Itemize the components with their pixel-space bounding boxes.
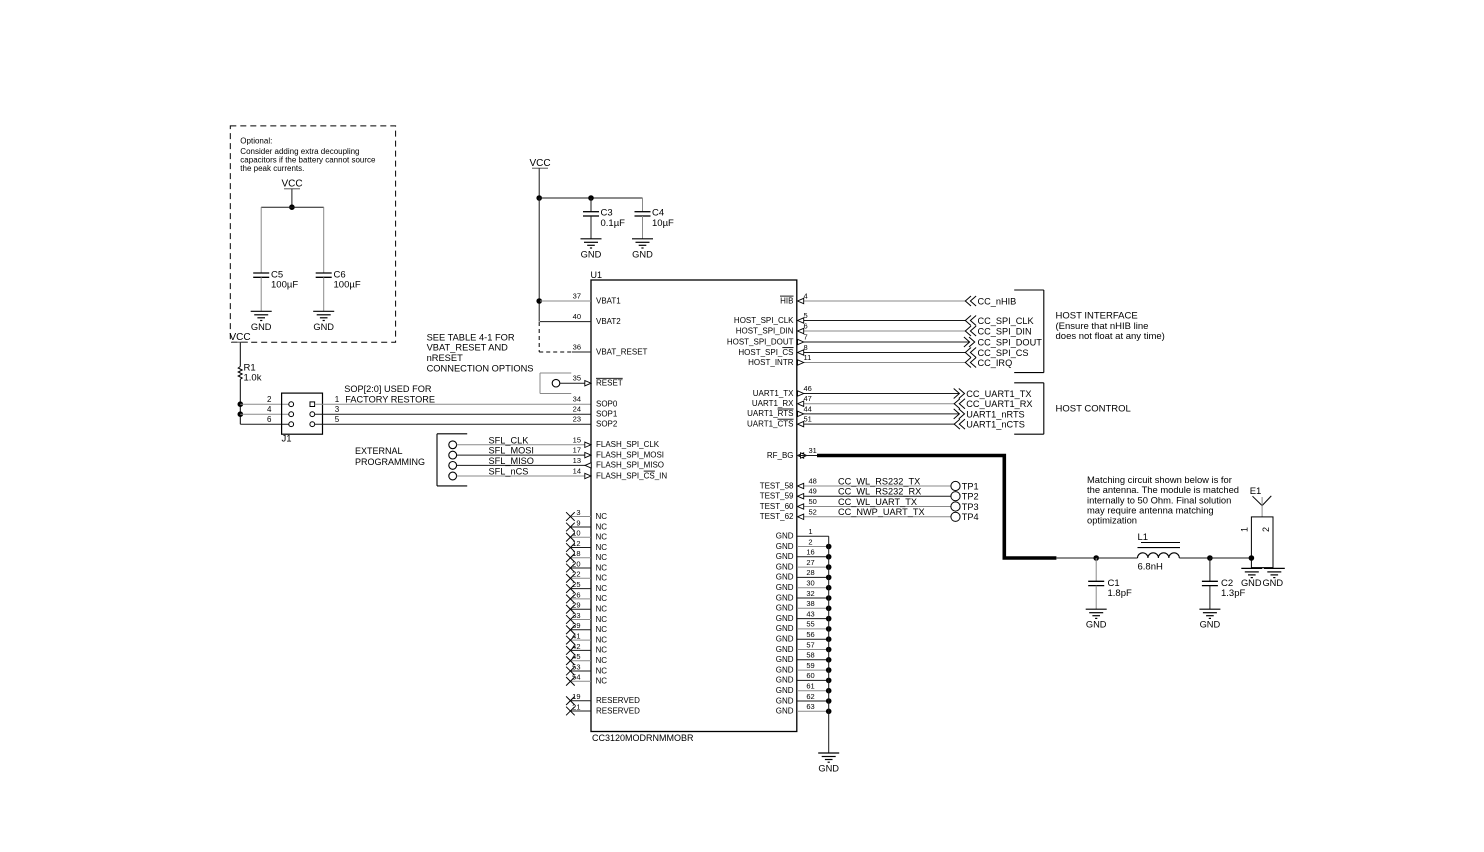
- IC U1 body: [591, 280, 797, 732]
- U1 pin 40 VBAT2: [540, 312, 621, 326]
- wire C1 to L1: [1096, 557, 1137, 559]
- svg-text:VCC: VCC: [529, 158, 550, 169]
- svg-text:GND: GND: [776, 583, 794, 592]
- capacitor C5: [253, 273, 269, 277]
- svg-text:SOP1: SOP1: [596, 410, 618, 419]
- SFL_nCS terminal circle: [449, 472, 457, 480]
- U1 pin 41 NC: [566, 632, 607, 645]
- offpage connector CC_nHIB: [965, 296, 1016, 307]
- svg-text:45: 45: [572, 652, 580, 661]
- svg-text:1.3pF: 1.3pF: [1221, 588, 1245, 599]
- offpage connector CC_UART1_TX: [954, 389, 1032, 400]
- svg-text:53: 53: [572, 662, 580, 671]
- power VCC (optional block): [281, 179, 302, 190]
- ground GND (C5): [251, 311, 272, 332]
- U1 pin 24 SOP1: [573, 405, 618, 419]
- svg-text:23: 23: [573, 415, 581, 424]
- capacitor C3: [583, 212, 599, 216]
- svg-text:CC_SPI_DIN: CC_SPI_DIN: [978, 327, 1032, 337]
- svg-text:GND: GND: [776, 532, 794, 541]
- offpage connector CC_SPI_CS: [965, 348, 1028, 359]
- J1 pad pin5: [310, 422, 315, 427]
- label L1: [1138, 532, 1163, 572]
- svg-text:GND: GND: [776, 676, 794, 685]
- svg-text:CC_UART1_TX: CC_UART1_TX: [966, 389, 1031, 399]
- svg-text:26: 26: [572, 590, 580, 599]
- bracket HOST INTERFACE: [1014, 290, 1044, 373]
- U1 pin 54 NC: [566, 673, 607, 686]
- svg-text:16: 16: [806, 548, 814, 557]
- U1 pin 21 RESERVED: [566, 702, 640, 715]
- svg-text:UART1_TX: UART1_TX: [753, 389, 794, 398]
- svg-text:100µF: 100µF: [271, 280, 298, 291]
- U1 pin 39 NC: [566, 621, 607, 634]
- power VCC (R1 branch): [229, 332, 250, 343]
- svg-text:24: 24: [573, 405, 581, 414]
- wire C5 to GND: [260, 277, 262, 311]
- svg-text:TEST_58: TEST_58: [760, 481, 794, 490]
- svg-text:GND: GND: [776, 655, 794, 664]
- svg-text:UART1_RX: UART1_RX: [752, 399, 794, 408]
- U1 pin 8 HOST_SPI_CS + wire: [738, 343, 965, 357]
- U1 pin 12 NC: [566, 539, 607, 552]
- svg-text:UART1_RTS: UART1_RTS: [747, 409, 793, 418]
- wire C1 drop: [1095, 558, 1097, 581]
- svg-text:19: 19: [572, 692, 580, 701]
- svg-text:GND: GND: [776, 707, 794, 716]
- svg-text:VCC: VCC: [281, 179, 302, 190]
- svg-text:21: 21: [572, 702, 580, 711]
- offpage connector CC_SPI_DIN: [965, 326, 1031, 337]
- svg-text:HOST_SPI_DOUT: HOST_SPI_DOUT: [727, 337, 794, 346]
- svg-text:3: 3: [576, 508, 580, 517]
- E1 pin number 1: [1240, 527, 1250, 532]
- text optional note: [240, 137, 376, 174]
- svg-text:SFL_MISO: SFL_MISO: [489, 456, 534, 466]
- J1 pad pin3: [310, 412, 315, 417]
- U1 pin 2 GND: [776, 537, 832, 551]
- node junction C2 top: [1207, 555, 1213, 561]
- svg-text:1: 1: [1240, 527, 1250, 532]
- U1 pin 7 HOST_SPI_DOUT + wire: [727, 333, 970, 347]
- svg-text:VBAT_RESET AND: VBAT_RESET AND: [427, 343, 509, 353]
- svg-text:32: 32: [806, 589, 814, 598]
- offpage connector CC_IRQ: [965, 358, 1012, 369]
- svg-text:TP1: TP1: [962, 481, 979, 491]
- svg-text:10µF: 10µF: [652, 218, 674, 229]
- svg-text:CC_nHIB: CC_nHIB: [978, 297, 1017, 307]
- J1 pad pin2: [289, 402, 294, 407]
- U1 pin 29 NC: [566, 601, 607, 614]
- svg-text:33: 33: [572, 611, 580, 620]
- svg-text:UART1_CTS: UART1_CTS: [747, 419, 794, 428]
- svg-text:NC: NC: [596, 584, 608, 593]
- label C1: [1108, 578, 1132, 599]
- capacitor C2: [1202, 581, 1218, 585]
- svg-text:Optional:: Optional:: [240, 137, 272, 146]
- svg-text:RESERVED: RESERVED: [596, 706, 640, 715]
- svg-text:SOP[2:0] USED FOR: SOP[2:0] USED FOR: [344, 384, 432, 394]
- U1 pin 17 FLASH_SPI_MOSI: [573, 446, 664, 460]
- U1 pin 16 GND: [776, 548, 832, 562]
- U1 pin 22 NC: [566, 570, 607, 583]
- svg-text:17: 17: [573, 446, 581, 455]
- svg-text:SFL_nCS: SFL_nCS: [489, 467, 529, 477]
- J1 pin number 1: [335, 395, 340, 404]
- U1 pin 5 HOST_SPI_CLK + wire: [734, 311, 965, 325]
- svg-text:62: 62: [806, 692, 814, 701]
- svg-text:NC: NC: [596, 635, 608, 644]
- node junction J1 pin2: [238, 401, 244, 407]
- svg-text:CC_SPI_DOUT: CC_SPI_DOUT: [978, 338, 1043, 348]
- wire C4 drop: [642, 198, 644, 212]
- testpoint TP4: [951, 512, 979, 522]
- J1 pad pin1 (square): [310, 402, 315, 407]
- svg-text:NC: NC: [596, 553, 608, 562]
- wire J1 pin3 to SOP1: [315, 413, 591, 415]
- svg-text:GND: GND: [776, 635, 794, 644]
- text HOST CONTROL: [1056, 404, 1131, 415]
- svg-text:10: 10: [572, 529, 580, 538]
- svg-text:nRESET: nRESET: [427, 353, 463, 363]
- wire VCC to R1: [239, 342, 241, 366]
- svg-text:CC_UART1_RX: CC_UART1_RX: [966, 399, 1032, 409]
- J1 pin number 4: [267, 405, 272, 414]
- svg-text:GND: GND: [776, 686, 794, 695]
- svg-text:FLASH_SPI_CLK: FLASH_SPI_CLK: [596, 440, 660, 449]
- svg-text:5: 5: [335, 415, 340, 424]
- U1 pin 1 GND: [776, 527, 829, 541]
- svg-text:15: 15: [573, 435, 581, 444]
- testpoint TP3: [951, 502, 979, 512]
- svg-text:HOST CONTROL: HOST CONTROL: [1056, 404, 1131, 415]
- svg-text:TEST_62: TEST_62: [760, 512, 794, 521]
- svg-text:FLASH_SPI_CS_IN: FLASH_SPI_CS_IN: [596, 471, 667, 480]
- svg-text:C1: C1: [1108, 578, 1120, 589]
- svg-text:GND: GND: [776, 696, 794, 705]
- U1 pin 6 HOST_SPI_DIN + wire: [736, 322, 966, 336]
- U1 pin 61 GND: [776, 682, 832, 696]
- U1 pin 31 RF_BG: [767, 446, 817, 460]
- svg-text:44: 44: [804, 404, 812, 413]
- U1 pin 48 TEST_58 + wire: [760, 477, 951, 491]
- annotation box (optional decoupling, dashed): [230, 126, 395, 342]
- U1 pin 32 GND: [776, 589, 832, 603]
- wire C3 drop: [590, 198, 592, 212]
- svg-text:4: 4: [267, 405, 272, 414]
- svg-text:1.8pF: 1.8pF: [1108, 588, 1132, 599]
- label C3: [601, 208, 626, 229]
- svg-text:NC: NC: [596, 656, 608, 665]
- svg-text:GND: GND: [1241, 578, 1262, 588]
- svg-text:U1: U1: [591, 270, 603, 280]
- svg-text:GND: GND: [776, 573, 794, 582]
- svg-text:GND: GND: [776, 665, 794, 674]
- svg-text:35: 35: [573, 374, 581, 383]
- wire to J1 pin2: [240, 403, 288, 405]
- U1 pin 44 UART1_RTS + wire: [747, 404, 959, 418]
- label E1: [1250, 486, 1262, 497]
- svg-text:2: 2: [267, 395, 272, 404]
- offpage connector CC_SPI_CLK: [965, 316, 1034, 327]
- svg-text:FLASH_SPI_MOSI: FLASH_SPI_MOSI: [596, 450, 664, 459]
- U1 pin 14 FLASH_SPI_CS_IN: [573, 467, 668, 481]
- svg-text:CC3120MODRNMMOBR: CC3120MODRNMMOBR: [592, 733, 694, 743]
- svg-text:VBAT1: VBAT1: [596, 296, 621, 305]
- net label CC_WL_UART_TX: [838, 497, 917, 507]
- U1 pin 53 NC: [566, 662, 607, 675]
- inductor L1: [1138, 543, 1181, 559]
- svg-text:GND: GND: [776, 604, 794, 613]
- svg-text:HOST_INTR: HOST_INTR: [748, 358, 794, 367]
- svg-text:42: 42: [572, 642, 580, 651]
- capacitor C4: [635, 212, 651, 216]
- svg-text:UART1_nCTS: UART1_nCTS: [966, 420, 1025, 430]
- U1 pin 45 NC: [566, 652, 607, 665]
- svg-text:48: 48: [809, 477, 817, 486]
- wire rail to C5: [260, 207, 262, 273]
- svg-text:54: 54: [572, 673, 580, 682]
- svg-text:NC: NC: [596, 594, 608, 603]
- SFL_MOSI terminal circle: [449, 451, 457, 459]
- U1 pin 36 VBAT_RESET: [573, 343, 648, 357]
- ground GND (C2): [1199, 609, 1220, 630]
- svg-text:HOST_SPI_CLK: HOST_SPI_CLK: [734, 316, 794, 325]
- svg-text:SEE TABLE 4-1 FOR: SEE TABLE 4-1 FOR: [427, 332, 515, 342]
- svg-text:2: 2: [1261, 527, 1271, 532]
- svg-text:CONNECTION OPTIONS: CONNECTION OPTIONS: [427, 363, 534, 373]
- wire C1 to GND: [1095, 586, 1097, 610]
- svg-text:RESET: RESET: [596, 379, 623, 388]
- svg-text:56: 56: [806, 630, 814, 639]
- wire RF thick trace: [817, 456, 1056, 559]
- U1 pin 60 GND: [776, 671, 832, 685]
- U1 pin 25 NC: [566, 580, 607, 593]
- svg-text:100µF: 100µF: [334, 280, 361, 291]
- wire VCC down to VBAT1: [538, 198, 540, 322]
- svg-text:12: 12: [572, 539, 580, 548]
- svg-text:40: 40: [573, 312, 581, 321]
- U1 pin 62 GND: [776, 692, 832, 706]
- svg-text:GND: GND: [776, 624, 794, 633]
- svg-text:PROGRAMMING: PROGRAMMING: [355, 457, 425, 467]
- RESET stub bracket: [540, 373, 571, 394]
- text see table 4-1 note: [427, 332, 534, 373]
- U1 pin 50 TEST_60 + wire: [760, 497, 951, 511]
- U1 pin 43 GND: [776, 609, 832, 623]
- svg-text:TP2: TP2: [962, 492, 979, 502]
- offpage connector CC_UART1_RX: [954, 399, 1032, 410]
- antenna E1 body: [1251, 517, 1273, 568]
- label U1 refdes: [591, 270, 603, 280]
- U1 pin 63 GND: [776, 702, 832, 716]
- svg-text:34: 34: [573, 395, 581, 404]
- label U1 part number: [592, 733, 694, 743]
- U1 pin 15 FLASH_SPI_CLK: [573, 435, 660, 449]
- svg-text:29: 29: [572, 601, 580, 610]
- svg-text:6.8nH: 6.8nH: [1138, 561, 1163, 572]
- svg-text:37: 37: [573, 292, 581, 301]
- ground GND (C6): [313, 311, 334, 332]
- svg-text:TEST_59: TEST_59: [760, 492, 794, 501]
- svg-text:GND: GND: [776, 552, 794, 561]
- ground GND (C3): [581, 239, 602, 259]
- U1 pin 55 GND: [776, 620, 832, 634]
- J1 pin number 6: [267, 415, 272, 424]
- U1 pin 57 GND: [776, 640, 832, 654]
- svg-text:GND: GND: [251, 322, 272, 332]
- svg-text:CC_SPI_CLK: CC_SPI_CLK: [978, 316, 1035, 326]
- U1 pin 23 SOP2: [573, 415, 618, 429]
- svg-text:NC: NC: [596, 625, 608, 634]
- svg-text:61: 61: [806, 682, 814, 691]
- svg-text:47: 47: [804, 394, 812, 403]
- svg-text:UART1_nRTS: UART1_nRTS: [966, 409, 1024, 419]
- svg-text:GND: GND: [1086, 620, 1107, 630]
- wire C2 drop: [1209, 558, 1211, 581]
- svg-text:FACTORY RESTORE: FACTORY RESTORE: [345, 394, 435, 404]
- wire L1 to C2: [1179, 557, 1210, 559]
- svg-text:VCC: VCC: [229, 332, 250, 343]
- label C2: [1221, 578, 1245, 599]
- capacitor C6: [316, 273, 332, 277]
- svg-text:6: 6: [267, 415, 272, 424]
- label C6: [334, 269, 361, 290]
- svg-text:2: 2: [808, 537, 812, 546]
- svg-text:RESERVED: RESERVED: [596, 696, 640, 705]
- node junction C3 top: [588, 195, 594, 201]
- svg-text:SOP2: SOP2: [596, 420, 618, 429]
- wire RF_BG stub: [797, 455, 817, 457]
- wire SFL_CLK: [457, 435, 585, 445]
- svg-text:optimization: optimization: [1087, 515, 1137, 526]
- svg-text:E1: E1: [1250, 486, 1262, 497]
- wire rail to C6: [323, 207, 325, 273]
- svg-text:14: 14: [573, 467, 581, 476]
- U1 pin 49 TEST_59 + wire: [760, 487, 951, 501]
- U1 pin 3 NC: [566, 508, 607, 521]
- U1 pin 51 UART1_CTS + wire: [747, 415, 954, 429]
- external programming bracket: [437, 434, 467, 486]
- U1 pin 33 NC: [566, 611, 607, 624]
- svg-text:VBAT_RESET: VBAT_RESET: [596, 347, 648, 356]
- svg-text:NC: NC: [596, 677, 608, 686]
- SFL_CLK terminal circle: [449, 441, 457, 449]
- wire C2 to E1: [1210, 557, 1252, 559]
- wire C5-C6 top rail: [261, 206, 324, 208]
- label J1: [282, 433, 292, 444]
- U1 pin 10 NC: [566, 529, 607, 542]
- svg-text:NC: NC: [596, 574, 608, 583]
- text external programming: [355, 446, 425, 467]
- node junction J1 pin4: [238, 411, 244, 417]
- ground GND (U1 bus): [818, 753, 839, 774]
- U1 pin 4 HIB + wire: [780, 292, 965, 306]
- wire SFL_MOSI: [457, 446, 585, 456]
- svg-text:SOP0: SOP0: [596, 400, 618, 409]
- svg-text:18: 18: [572, 549, 580, 558]
- svg-text:CC_WL_RS232_TX: CC_WL_RS232_TX: [838, 476, 920, 486]
- svg-text:39: 39: [572, 621, 580, 630]
- svg-text:38: 38: [806, 599, 814, 608]
- svg-text:CC_NWP_UART_TX: CC_NWP_UART_TX: [838, 507, 925, 517]
- svg-text:50: 50: [809, 497, 817, 506]
- U1 pin 46 UART1_TX + wire: [753, 384, 960, 398]
- svg-text:EXTERNAL: EXTERNAL: [355, 446, 403, 456]
- ground GND (E1 pin2): [1262, 568, 1284, 587]
- net label CC_WL_RS232_TX: [838, 476, 920, 486]
- svg-text:NC: NC: [596, 646, 608, 655]
- J1 pin number 2: [267, 395, 272, 404]
- svg-text:30: 30: [806, 579, 814, 588]
- J1 pad pin4: [289, 412, 294, 417]
- wire C3 to GND: [590, 216, 592, 239]
- U1 pin 30 GND: [776, 579, 832, 593]
- label R1: [244, 363, 262, 384]
- svg-text:TP3: TP3: [962, 502, 979, 512]
- svg-text:GND: GND: [776, 562, 794, 571]
- wire RF to matching network: [1056, 557, 1096, 559]
- svg-text:27: 27: [806, 558, 814, 567]
- J1 pin number 3: [335, 405, 340, 414]
- svg-text:TEST_60: TEST_60: [760, 502, 794, 511]
- svg-text:59: 59: [806, 661, 814, 670]
- svg-text:36: 36: [573, 343, 581, 352]
- svg-text:51: 51: [804, 415, 812, 424]
- wire C2 to GND: [1209, 586, 1211, 610]
- wire VCC stem (main): [538, 168, 540, 198]
- svg-text:13: 13: [573, 456, 581, 465]
- svg-text:CC_SPI_CS: CC_SPI_CS: [978, 348, 1029, 358]
- U1 pin 26 NC: [566, 590, 607, 603]
- svg-text:11: 11: [804, 353, 812, 362]
- svg-text:1.0k: 1.0k: [244, 373, 262, 384]
- svg-text:L1: L1: [1138, 532, 1149, 543]
- testpoint TP2: [951, 492, 979, 502]
- svg-text:the peak currents.: the peak currents.: [240, 164, 304, 173]
- wire VBAT_RESET dashed: [539, 322, 591, 352]
- label C4: [652, 208, 674, 229]
- svg-text:C2: C2: [1221, 578, 1233, 589]
- wire VCC rail to C4: [539, 197, 642, 199]
- svg-text:HIB: HIB: [780, 296, 793, 305]
- svg-text:J1: J1: [282, 433, 292, 444]
- svg-text:VBAT2: VBAT2: [596, 317, 621, 326]
- svg-text:NC: NC: [596, 533, 608, 542]
- svg-text:GND: GND: [776, 645, 794, 654]
- svg-text:does not float at any time): does not float at any time): [1056, 331, 1165, 342]
- svg-text:3: 3: [335, 405, 340, 414]
- svg-text:52: 52: [809, 507, 817, 516]
- J1 pin number 5: [335, 415, 340, 424]
- U1 pin 9 NC: [566, 518, 607, 531]
- svg-text:49: 49: [809, 487, 817, 496]
- wire RESET to U1: [560, 382, 585, 384]
- svg-text:46: 46: [804, 384, 812, 393]
- U1 pin 59 GND: [776, 661, 832, 675]
- ground GND (C1): [1086, 609, 1107, 630]
- wire J1 pin1 to SOP0: [315, 403, 591, 405]
- svg-text:SFL_MOSI: SFL_MOSI: [489, 446, 534, 456]
- testpoint TP1: [951, 481, 979, 491]
- svg-text:GND: GND: [776, 614, 794, 623]
- svg-text:CC_WL_RS232_RX: CC_WL_RS232_RX: [838, 487, 921, 497]
- svg-text:1: 1: [335, 395, 340, 404]
- node junction VCC/C5/C6: [289, 204, 295, 210]
- U1 pin 27 GND: [776, 558, 832, 572]
- RESET terminal circle: [552, 379, 560, 387]
- svg-text:GND: GND: [776, 593, 794, 602]
